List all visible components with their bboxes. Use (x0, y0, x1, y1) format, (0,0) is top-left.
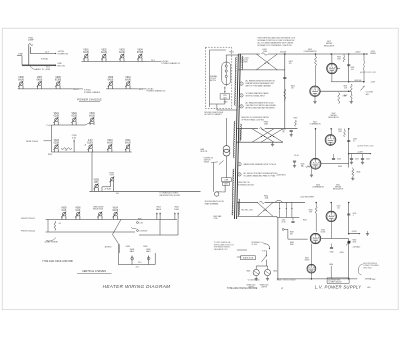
svg-text:6AU6: 6AU6 (107, 142, 113, 145)
svg-text:6DJ8: 6DJ8 (54, 116, 60, 118)
svg-text:P649: P649 (143, 246, 147, 248)
svg-text:PART OF THIS SAME DIAGRAM: PART OF THIS SAME DIAGRAM (246, 84, 272, 87)
svg-text:R632: R632 (344, 95, 348, 97)
svg-text:+100V RECT: +100V RECT (276, 174, 286, 176)
svg-text:C646: C646 (337, 159, 341, 161)
svg-text:P649: P649 (138, 218, 142, 220)
svg-text:POWER CHASSIS J2: POWER CHASSIS J2 (162, 62, 181, 65)
svg-text:P601: P601 (229, 51, 233, 53)
svg-text:TO +225V: TO +225V (241, 58, 249, 60)
svg-text:R634: R634 (337, 57, 341, 59)
svg-text:POWER CHASSIS: POWER CHASSIS (77, 98, 102, 102)
svg-text:FROM T2204-14: FROM T2204-14 (21, 231, 35, 233)
svg-text:R653: R653 (338, 129, 342, 131)
svg-text:UNREG: UNREG (370, 53, 377, 55)
svg-text:A THRU: A THRU (105, 246, 112, 249)
svg-text:BUS ON: BUS ON (58, 66, 66, 68)
svg-text:S602: S602 (224, 102, 228, 104)
svg-text:6AU6: 6AU6 (108, 78, 114, 81)
svg-text:P650: P650 (48, 154, 52, 156)
svg-text:6AU6: 6AU6 (18, 78, 24, 81)
svg-text:6.3V ELEV: 6.3V ELEV (140, 230, 149, 232)
svg-text:C666: C666 (330, 251, 334, 253)
svg-text:OF FRONT PANEL CONTROL: OF FRONT PANEL CONTROL (241, 118, 264, 121)
svg-text:INTERCONNECTING PLUG: INTERCONNECTING PLUG (214, 244, 235, 246)
svg-text:1: 1 (241, 83, 242, 85)
svg-text:POWER ON: POWER ON (204, 157, 214, 159)
svg-text:P650: P650 (126, 246, 130, 248)
svg-text:POWER ON: POWER ON (58, 54, 69, 56)
svg-text:6CW5: 6CW5 (55, 79, 62, 81)
svg-text:REGULATOR: REGULATOR (328, 116, 339, 119)
svg-text:C657: C657 (337, 206, 341, 208)
svg-text:R626: R626 (308, 49, 312, 51)
svg-text:1 AMP: 1 AMP (28, 39, 35, 42)
svg-text:C626: C626 (351, 67, 355, 69)
svg-text:6DJ8: 6DJ8 (71, 116, 77, 118)
svg-text:R607: R607 (294, 118, 298, 120)
svg-text:R655: R655 (303, 219, 307, 221)
svg-text:+225V: +225V (355, 52, 362, 54)
svg-text:4.7K: 4.7K (344, 88, 347, 90)
svg-text:VERTICAL CHASSIS: VERTICAL CHASSIS (82, 270, 106, 273)
svg-text:SEL REC -150V: SEL REC -150V (241, 209, 253, 211)
svg-text:TYPE 2A61 OSCILLOSCOPE: TYPE 2A61 OSCILLOSCOPE (42, 260, 73, 263)
svg-text:6AU6: 6AU6 (125, 142, 131, 145)
svg-text:OF T601: OF T601 (251, 244, 257, 246)
svg-text:24.7: 24.7 (139, 89, 143, 91)
svg-text:QUIET IN HUM: QUIET IN HUM (45, 241, 58, 243)
svg-text:24.7: 24.7 (45, 51, 49, 53)
svg-text:POWER CHASSIS: POWER CHASSIS (84, 91, 101, 94)
svg-text:REGULATOR: REGULATOR (333, 188, 344, 191)
svg-text:REGULATOR: REGULATOR (324, 44, 335, 47)
svg-text:FROM T2204-17: FROM T2204-17 (21, 218, 35, 220)
svg-text:.1: .1 (353, 215, 354, 217)
svg-text:R646: R646 (357, 171, 361, 173)
svg-text:DIODES: DIODES (241, 62, 247, 64)
svg-text:6AU6: 6AU6 (112, 209, 118, 212)
svg-text:R663: R663 (353, 239, 357, 241)
svg-text:3: 3 (241, 106, 242, 108)
svg-text:26.1: 26.1 (136, 267, 139, 269)
svg-text:SCREWDR. ADJUST: SCREWDR. ADJUST (238, 183, 254, 186)
svg-text:26.2: 26.2 (116, 193, 119, 195)
svg-text:PILOT: PILOT (73, 89, 79, 91)
svg-text:4: 4 (239, 164, 240, 166)
svg-text:6AU6: 6AU6 (89, 115, 95, 118)
svg-text:CUTOUT: CUTOUT (210, 78, 217, 80)
svg-text:5: 5 (239, 174, 240, 176)
svg-text:ELEV. TO +100V: ELEV. TO +100V (36, 69, 51, 71)
svg-text:2: 2 (241, 95, 242, 97)
svg-text:R647: R647 (313, 121, 317, 123)
svg-text:APPROX. AND MAY VARY BETWEEN: APPROX. AND MAY VARY BETWEEN (246, 106, 276, 109)
svg-text:(B) TEST POINT +100V: (B) TEST POINT +100V (358, 146, 374, 148)
svg-text:C649: C649 (353, 139, 357, 141)
svg-text:6AU6: 6AU6 (125, 78, 131, 81)
svg-text:SWITCH: SWITCH (210, 80, 217, 82)
svg-text:6CW5: 6CW5 (137, 52, 144, 54)
svg-text:RELAY K601: RELAY K601 (93, 208, 103, 211)
svg-text:LINE: LINE (18, 54, 23, 56)
svg-text:THRU P601: THRU P601 (363, 268, 372, 270)
svg-text:-150V RECTIFIER: -150V RECTIFIER (300, 197, 315, 199)
svg-text:125: 125 (289, 63, 292, 65)
svg-text:LIGHTS: LIGHTS (261, 286, 267, 288)
svg-text:WITH NO SIGNAL INPUT: WITH NO SIGNAL INPUT (246, 94, 265, 97)
svg-text:A-9: A-9 (368, 286, 371, 289)
svg-text:26.2: 26.2 (138, 262, 141, 264)
svg-text:C645: C645 (366, 159, 370, 161)
svg-text:6AU6: 6AU6 (83, 51, 89, 54)
svg-text:2X 40: 2X 40 (294, 155, 298, 157)
svg-text:80: 80 (283, 132, 285, 134)
svg-text:MOTOR: MOTOR (201, 151, 208, 153)
svg-text:P+10: P+10 (46, 125, 50, 127)
svg-text:6AU6: 6AU6 (119, 51, 125, 54)
svg-text:6CW5: 6CW5 (321, 231, 326, 233)
svg-text:6AU6: 6AU6 (156, 208, 161, 211)
svg-text:6AL5: 6AL5 (130, 250, 134, 253)
svg-text:R668: R668 (290, 242, 294, 244)
svg-text:6AU6: 6AU6 (37, 78, 43, 81)
svg-text:ELEV: ELEV (87, 143, 93, 145)
svg-text:VOLTAGES MEASURED PEAK TO PEAK: VOLTAGES MEASURED PEAK TO PEAK (244, 174, 276, 177)
svg-text:AC SUPPLY CABINET: AC SUPPLY CABINET (205, 113, 222, 116)
svg-text:WAVEFORMS OBTAINED WITH TYPE C: WAVEFORMS OBTAINED WITH TYPE CA (244, 163, 277, 166)
svg-text:COMPARATOR: COMPARATOR (312, 186, 325, 189)
svg-text:+100V: +100V (357, 151, 363, 153)
svg-text:LINE: LINE (225, 180, 229, 182)
svg-text:R645: R645 (301, 163, 305, 165)
svg-text:2.3W: 2.3W (214, 218, 218, 220)
svg-text:FROM T2204-6: FROM T2204-6 (26, 141, 38, 143)
svg-text:C647: C647 (355, 159, 359, 161)
svg-text:C656: C656 (353, 213, 357, 215)
svg-text:R656: R656 (338, 166, 342, 168)
svg-text:TYPE 2A61 OSCILLOSCOPE: TYPE 2A61 OSCILLOSCOPE (227, 287, 258, 290)
svg-text:SILICON: SILICON (241, 60, 248, 62)
svg-text:CRT: CRT (110, 175, 115, 177)
svg-text:VIA INTERCONN. SOCKET: VIA INTERCONN. SOCKET (159, 194, 180, 197)
svg-text:SWITCH: SWITCH (204, 160, 211, 162)
svg-text:.001: .001 (351, 69, 354, 71)
svg-text:R602: R602 (291, 86, 295, 88)
svg-text:4.7: 4.7 (353, 141, 355, 143)
svg-text:DC LEVEL: DC LEVEL (366, 91, 374, 93)
svg-text:2X ELEV: 2X ELEV (104, 189, 112, 191)
svg-text:NOMINAL 117V OPERATING CONDITI: NOMINAL 117V OPERATING CONDITION (258, 44, 293, 47)
svg-text:2X 40: 2X 40 (282, 222, 286, 224)
svg-text:4X 605B: 4X 605B (280, 52, 287, 54)
svg-text:C664: C664 (282, 219, 286, 221)
svg-text:125: 125 (337, 208, 340, 210)
svg-text:A: A (280, 287, 283, 290)
svg-text:6AU6: 6AU6 (101, 51, 107, 54)
svg-text:R658: R658 (309, 209, 313, 211)
svg-text:2.2: 2.2 (65, 150, 68, 152)
svg-text:POWER CHASSIS 2X: POWER CHASSIS 2X (147, 90, 167, 93)
svg-text:HEATER WIRING DIAGRAM: HEATER WIRING DIAGRAM (103, 284, 171, 289)
svg-text:-150V: -150V (351, 231, 357, 233)
svg-text:6AL5: 6AL5 (146, 250, 150, 253)
svg-text:R669: R669 (290, 232, 294, 234)
svg-text:B667: B667 (305, 258, 309, 260)
svg-text:270: 270 (291, 88, 294, 90)
svg-text:R664: R664 (329, 264, 333, 266)
svg-text:B601: B601 (247, 270, 251, 272)
svg-text:R631: R631 (344, 86, 348, 88)
svg-text:SW601: SW601 (204, 162, 209, 164)
svg-text:4.5: 4.5 (59, 223, 62, 225)
svg-text:L601: L601 (224, 184, 228, 186)
svg-text:C607: C607 (282, 129, 286, 131)
svg-text:B602: B602 (273, 270, 277, 272)
svg-text:6DJ8: 6DJ8 (54, 143, 60, 145)
svg-text:REAR SUBPANEL: REAR SUBPANEL (205, 202, 219, 205)
svg-text:R630 10K: R630 10K (355, 80, 363, 82)
svg-text:L.V. POWER SUPPLY: L.V. POWER SUPPLY (315, 285, 362, 290)
svg-text:6.3V AC: 6.3V AC (41, 57, 49, 60)
